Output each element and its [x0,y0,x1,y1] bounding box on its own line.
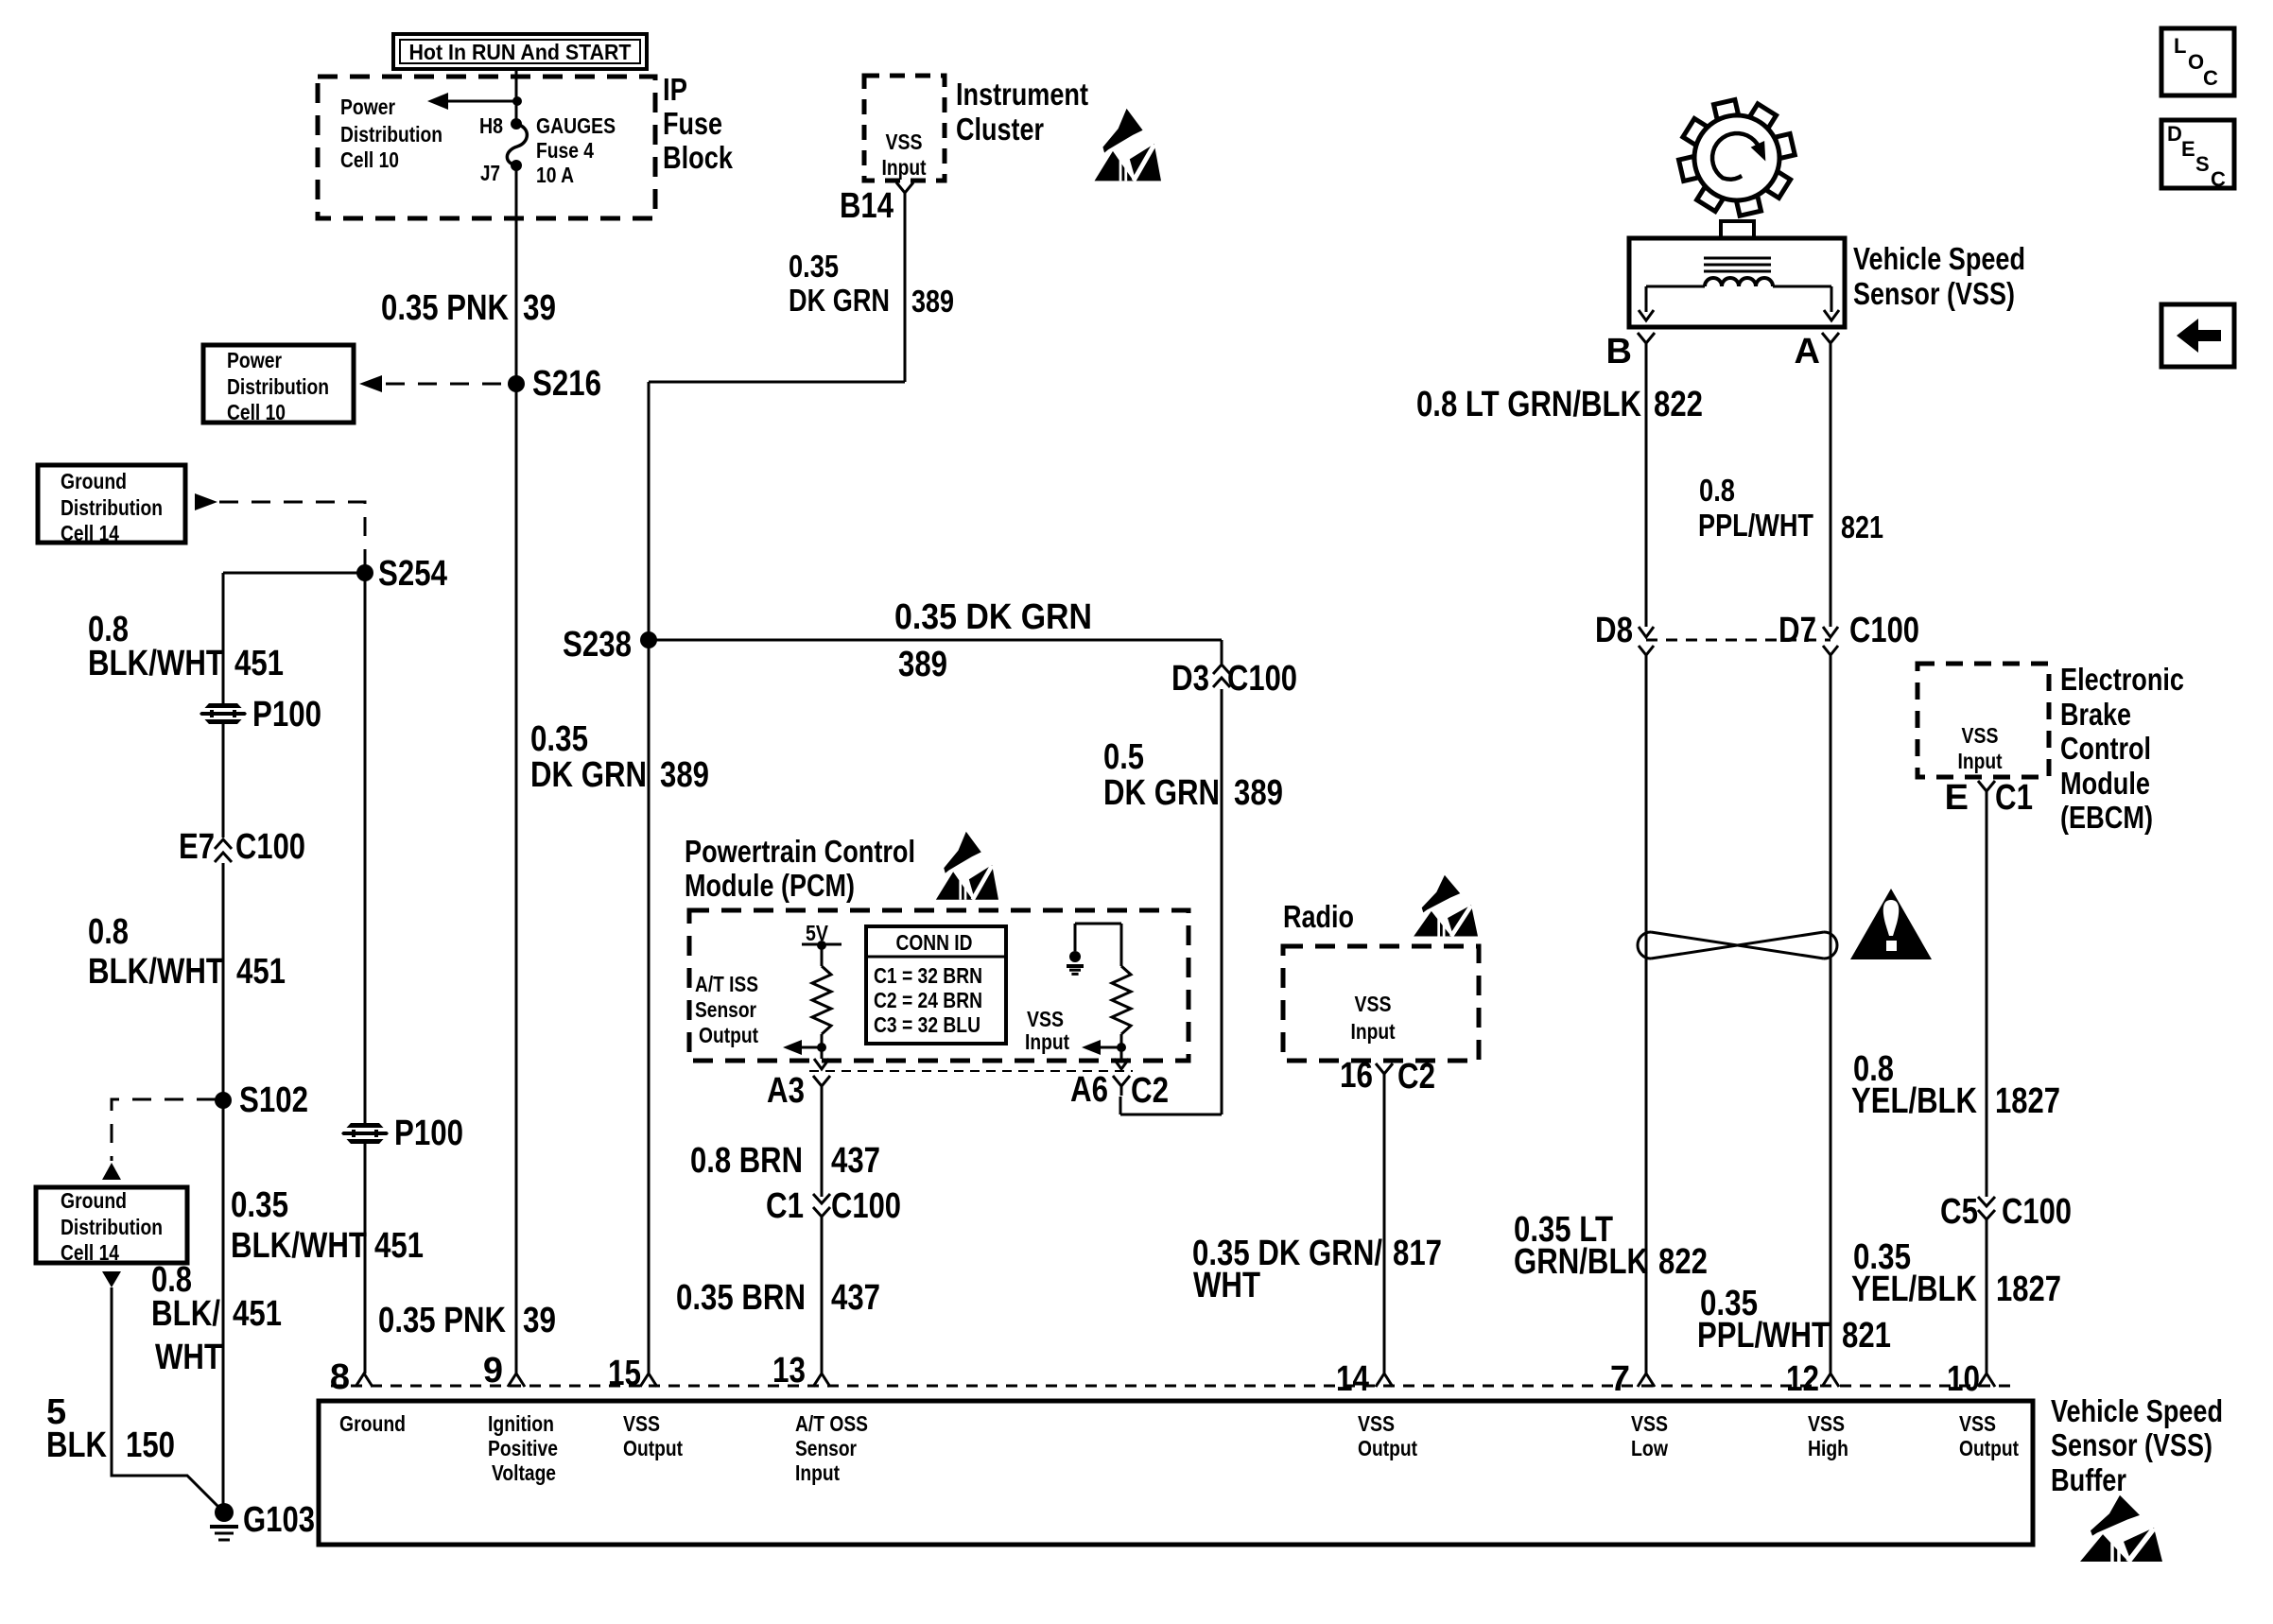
VSS sensor body [1721,221,1754,238]
ESD symbol radio [1414,875,1478,937]
svg-text:C1 = 32 BRN: C1 = 32 BRN [874,963,982,988]
wires down to twisted pair [1645,655,1648,1373]
svg-text:Power: Power [227,348,282,372]
svg-text:Distribution: Distribution [61,495,163,520]
svg-text:Output: Output [623,1436,683,1460]
svg-text:Ground: Ground [339,1411,406,1436]
svg-text:Sensor: Sensor [695,997,756,1022]
svg-text:C: C [2211,167,2226,191]
svg-text:C3 = 32 BLU: C3 = 32 BLU [874,1012,980,1037]
svg-text:Powertrain Control: Powertrain Control [685,834,915,869]
PCM connector face dashed line [809,1070,1133,1072]
svg-text:C100: C100 [1227,659,1297,699]
svg-text:BLK/WHT: BLK/WHT [88,644,224,683]
svg-text:Buffer: Buffer [2051,1462,2126,1497]
svg-text:WHT: WHT [1193,1266,1260,1305]
svg-text:821: 821 [1841,510,1883,544]
wire 0.8 LT GRN/BLK 822 [1645,353,1648,627]
svg-text:L: L [2174,34,2186,58]
svg-text:Sensor: Sensor [795,1436,857,1460]
connector E7 C100 [215,839,232,862]
svg-text:Cell 10: Cell 10 [227,400,286,424]
svg-text:C: C [2203,66,2218,90]
svg-text:PPL/WHT: PPL/WHT [1697,1316,1830,1356]
svg-text:0.8 BRN: 0.8 BRN [690,1141,803,1181]
wire from S254 to left branch [223,572,365,575]
svg-text:O: O [2188,50,2204,74]
svg-text:C1: C1 [1995,778,2033,818]
svg-text:822: 822 [1658,1242,1708,1282]
svg-text:0.35 PNK: 0.35 PNK [378,1301,506,1340]
arrow and dashed ref to S254 [195,493,217,510]
EBCM dashed box (VSS Input) [1917,664,2049,777]
svg-text:Output: Output [1959,1436,2019,1460]
junction dot [512,96,522,106]
buffer interface dashed line [331,1385,2019,1388]
svg-text:0.35 PNK: 0.35 PNK [381,288,509,328]
svg-text:Cluster: Cluster [956,112,1044,147]
svg-text:C100: C100 [235,827,305,867]
svg-text:Brake: Brake [2060,697,2131,732]
ESD symbol buffer [2080,1495,2162,1562]
svg-text:Input: Input [1351,1019,1396,1044]
svg-text:Input: Input [1958,749,2003,773]
svg-text:0.8 LT GRN/BLK: 0.8 LT GRN/BLK [1416,385,1641,424]
pins into Vehicle Speed Sensor Buffer [356,1373,373,1387]
svg-text:Fuse: Fuse [663,106,722,141]
svg-text:Fuse 4: Fuse 4 [536,138,594,163]
svg-text:IP: IP [663,72,687,107]
svg-text:Sensor (VSS): Sensor (VSS) [1853,276,2015,311]
svg-text:13: 13 [772,1351,806,1391]
Ground Distribution Cell 14 box (upper) [38,465,185,543]
PCM internal ground [1074,924,1077,951]
svg-text:Ignition: Ignition [488,1411,554,1436]
svg-text:S102: S102 [239,1080,308,1120]
svg-text:A6: A6 [1070,1070,1108,1110]
svg-text:Distribution: Distribution [61,1215,163,1239]
svg-text:Cell 14: Cell 14 [61,521,119,545]
wire: ignition feed into fuse block [515,69,518,125]
connector A [1822,333,1839,353]
svg-text:451: 451 [234,644,284,683]
wire 0.35 DK GRN 389 from B14 [904,202,907,382]
connector C5 C100 [1978,1197,1995,1219]
svg-text:Power: Power [340,95,395,119]
label: Hot In RUN And START box [393,34,647,69]
A/T ISS Sensor Output arrow [817,1043,826,1052]
svg-text:DK GRN: DK GRN [789,283,890,318]
svg-text:E: E [2181,137,2195,161]
svg-text:451: 451 [233,1294,282,1334]
svg-text:BLK/WHT: BLK/WHT [231,1226,367,1266]
wire S238 to D3 (0.35 DK GRN 389) [649,639,1222,642]
wire to S102 [222,863,225,1512]
svg-text:GRN/BLK: GRN/BLK [1514,1242,1648,1282]
svg-text:Cell 14: Cell 14 [61,1240,119,1265]
svg-text:Sensor (VSS): Sensor (VSS) [2051,1427,2212,1462]
svg-text:10: 10 [1947,1359,1980,1399]
svg-text:YEL/BLK: YEL/BLK [1851,1081,1977,1121]
svg-text:D8: D8 [1595,611,1633,650]
svg-text:S216: S216 [532,364,601,404]
svg-text:Hot In RUN And START: Hot In RUN And START [409,40,632,64]
svg-text:G103: G103 [243,1500,315,1540]
connector E C1 [1978,781,1995,801]
svg-text:389: 389 [1234,773,1283,813]
CONN ID table [866,926,1006,1044]
back arrow nav box [2161,304,2234,367]
Vehicle Speed Sensor (VSS) Buffer box [319,1401,2033,1545]
arrow to power distribution inside fuse block [448,100,516,103]
wire 0.35 BRN 437 to pin 13 [821,1217,824,1373]
svg-text:C100: C100 [1849,611,1919,650]
connector B14 [896,182,913,202]
svg-text:Electronic: Electronic [2060,662,2184,697]
svg-text:0.8: 0.8 [1699,473,1735,508]
grommet P100 (left) [200,703,247,724]
svg-text:C2: C2 [1397,1057,1435,1097]
svg-text:0.35: 0.35 [789,249,839,284]
svg-text:Instrument: Instrument [956,77,1088,112]
wire: 0.35 PNK 39 from fuse down [515,165,518,1373]
svg-text:S: S [2195,152,2210,176]
svg-text:437: 437 [831,1141,880,1181]
splice S254 [356,564,373,581]
svg-text:E7: E7 [179,827,215,867]
svg-text:10 A: 10 A [536,163,574,187]
splice S216 [508,375,525,392]
PCM dashed box [689,910,1189,1061]
svg-text:D3: D3 [1171,659,1209,699]
LOC nav box [2161,28,2234,95]
arrow out of box to ground wire [102,1271,121,1287]
svg-text:389: 389 [911,284,954,319]
wire 0.8 YEL/BLK 1827 [1986,801,1988,1197]
svg-text:(EBCM): (EBCM) [2060,800,2153,835]
svg-text:16: 16 [1340,1056,1373,1096]
svg-text:H8: H8 [479,113,503,138]
svg-text:Module (PCM): Module (PCM) [685,868,855,903]
svg-text:VSS: VSS [1027,1007,1064,1031]
resistor A/T ISS pull-up [812,966,831,1034]
svg-text:Voltage: Voltage [492,1460,556,1485]
ESD symbol PCM [936,832,998,900]
svg-text:Block: Block [663,140,734,175]
wire 0.5 DK GRN 389 down to A6 [1221,689,1223,1114]
svg-text:Input: Input [882,155,927,180]
grommet P100 (second) [341,1123,389,1144]
svg-text:D7: D7 [1778,611,1816,650]
svg-text:PPL/WHT: PPL/WHT [1698,508,1813,543]
svg-text:DK GRN: DK GRN [530,755,647,795]
fuse F4 GAUGES 10A [511,118,522,130]
svg-text:A/T ISS: A/T ISS [695,972,758,996]
svg-text:BLK/WHT: BLK/WHT [88,952,224,992]
svg-text:1827: 1827 [1995,1081,2060,1121]
svg-text:S238: S238 [563,625,632,665]
connector 16 C2 [1376,1063,1393,1083]
svg-text:BLK/: BLK/ [151,1294,220,1334]
ESD symbol instrument cluster [1095,109,1161,181]
wire 5 BLK 150 to G103 [112,1287,224,1512]
Power Distribution Cell 10 box [203,345,354,423]
svg-text:VSS: VSS [1355,992,1392,1016]
reluctor gear icon [1679,100,1796,216]
svg-text:P100: P100 [252,695,321,734]
connector D8 / D7 at C100 [1639,627,1654,637]
svg-text:S254: S254 [378,554,447,594]
svg-text:389: 389 [660,755,709,795]
svg-text:Input: Input [1025,1029,1069,1054]
svg-text:451: 451 [374,1226,424,1266]
connector D3 C100 [1221,640,1223,664]
svg-text:437: 437 [831,1278,880,1318]
svg-text:B: B [1606,332,1632,371]
svg-text:9: 9 [483,1351,503,1391]
svg-text:Vehicle Speed: Vehicle Speed [2051,1393,2223,1428]
pin A6 exit [1114,1059,1129,1069]
wire 0.8 BRN 437 [821,1096,824,1197]
svg-text:14: 14 [1336,1359,1369,1399]
svg-text:39: 39 [523,288,556,328]
svg-text:Output: Output [1358,1436,1417,1460]
twisted pair symbol [1638,932,1651,959]
svg-text:P100: P100 [394,1114,463,1153]
svg-text:C100: C100 [831,1186,901,1226]
svg-text:Radio: Radio [1283,899,1354,934]
svg-text:0.35 BRN: 0.35 BRN [676,1278,806,1318]
svg-text:Ground: Ground [61,469,127,493]
svg-text:VSS: VSS [1962,723,1999,748]
svg-text:VSS: VSS [1631,1411,1668,1436]
svg-text:C1: C1 [766,1186,804,1226]
svg-text:C2 = 24 BRN: C2 = 24 BRN [874,988,982,1012]
svg-text:451: 451 [236,952,286,992]
svg-text:YEL/BLK: YEL/BLK [1851,1270,1977,1309]
svg-text:389: 389 [898,645,947,684]
dashed ref from S102 to Ground Distribution Cell 14 [112,1099,216,1161]
svg-text:822: 822 [1654,385,1703,424]
svg-text:0.35: 0.35 [530,719,588,759]
svg-text:BLK: BLK [46,1425,107,1465]
svg-text:0.8: 0.8 [88,912,129,952]
svg-text:CONN ID: CONN ID [896,930,973,955]
svg-text:821: 821 [1842,1316,1891,1356]
pin A3 exit [814,1059,829,1069]
svg-text:C100: C100 [2002,1192,2072,1232]
Radio dashed box (VSS Input) [1283,946,1479,1061]
connector B [1638,333,1655,353]
svg-text:Vehicle Speed: Vehicle Speed [1853,241,2025,276]
wire 0.8 PPL/WHT 821 [1830,353,1832,627]
sensor core lines [1704,257,1771,260]
svg-text:Distribution: Distribution [227,374,329,399]
svg-text:GAUGES: GAUGES [536,113,616,138]
svg-text:Output: Output [699,1023,758,1047]
svg-text:39: 39 [523,1301,556,1340]
svg-text:VSS: VSS [1959,1411,1996,1436]
resistor VSS input pull-down [1112,966,1131,1034]
wire 0.35 DK GRN/WHT 817 to pin 14 [1383,1083,1386,1373]
DESC nav box [2161,120,2234,188]
svg-text:0.5: 0.5 [1103,737,1144,777]
svg-text:A: A [1795,332,1820,371]
svg-text:Cell 10: Cell 10 [340,147,399,172]
svg-text:DK GRN: DK GRN [1103,773,1220,813]
svg-text:0.35: 0.35 [231,1185,288,1225]
svg-text:Control: Control [2060,731,2151,766]
svg-text:817: 817 [1393,1234,1442,1273]
svg-text:8: 8 [330,1357,350,1397]
connector C1 C100 [813,1194,830,1217]
splice/ground G103 [215,1503,234,1522]
svg-text:D: D [2167,122,2182,146]
svg-text:7: 7 [1610,1359,1630,1399]
svg-text:B14: B14 [840,186,894,226]
sensor coil [1705,278,1773,286]
svg-text:VSS: VSS [886,130,923,154]
wire S254 down to pin 8 [364,573,367,1373]
svg-text:Positive: Positive [488,1436,558,1460]
svg-text:Distribution: Distribution [340,122,442,147]
svg-text:C5: C5 [1940,1192,1978,1232]
IP Fuse Block dashed box [318,77,655,218]
svg-text:High: High [1808,1436,1848,1460]
wire 0.35 YEL/BLK 1827 to pin 10 [1986,1219,1988,1373]
Instrument Cluster dashed box (VSS Input) [864,76,945,181]
svg-text:5V: 5V [806,921,828,945]
warning triangle note [1850,889,1932,959]
svg-text:Low: Low [1631,1436,1669,1460]
rotation arrow inside gear [1712,133,1760,180]
svg-text:WHT: WHT [155,1338,222,1377]
svg-text:A3: A3 [767,1071,805,1111]
svg-text:VSS: VSS [1808,1411,1845,1436]
svg-text:J7: J7 [480,161,500,185]
svg-text:150: 150 [126,1425,175,1465]
dashed ref line to S216 with arrow [386,383,512,386]
svg-text:C2: C2 [1131,1071,1169,1111]
VSS Input arrow [1117,1043,1126,1052]
svg-text:VSS: VSS [1358,1411,1395,1436]
svg-text:Module: Module [2060,766,2150,801]
splice S238 [640,631,657,648]
svg-text:12: 12 [1786,1359,1819,1399]
svg-text:A/T OSS: A/T OSS [795,1411,868,1436]
svg-text:15: 15 [608,1354,641,1393]
svg-text:1827: 1827 [1996,1270,2061,1309]
wire 0.35 DK GRN 389 down to pin 15 [648,640,651,1373]
svg-text:Input: Input [795,1460,840,1485]
splice S102 [215,1092,232,1109]
svg-text:VSS: VSS [623,1411,660,1436]
svg-text:0.35 DK GRN: 0.35 DK GRN [894,597,1092,637]
wire down to S238 [648,382,651,640]
Ground Distribution Cell 14 box (lower) [36,1187,187,1263]
svg-text:Ground: Ground [61,1188,127,1213]
svg-text:E: E [1945,778,1969,818]
